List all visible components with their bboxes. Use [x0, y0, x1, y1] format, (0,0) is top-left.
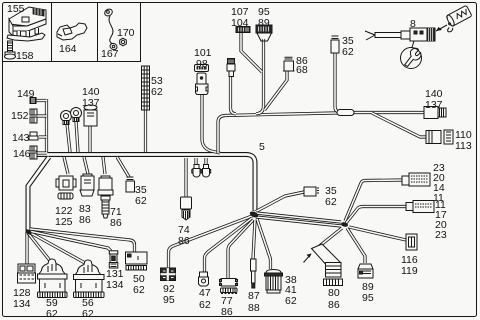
connector 47/62: [199, 272, 209, 286]
svg-text:5: 5: [259, 141, 265, 153]
wire to 35/62 left: [117, 157, 129, 177]
wire to 77/86: [228, 220, 253, 278]
svg-text:143: 143: [12, 132, 30, 144]
wire to 71/86: [103, 157, 105, 174]
svg-text:104: 104: [231, 17, 249, 29]
wire to 83/86: [84, 157, 88, 174]
connector 86/68: [283, 57, 295, 71]
wire 86/68: [265, 71, 288, 110]
svg-text:86: 86: [178, 235, 190, 247]
wire 149 stub: [34, 99, 47, 102]
wire ring terminal 2: [76, 121, 78, 152]
connector 128/134: [18, 264, 36, 283]
wire bulb 1: [194, 158, 197, 165]
wire left column: [45, 99, 48, 153]
wire ring terminal 1: [67, 124, 70, 152]
wire 143 stub: [39, 135, 47, 138]
connector 146 pair: [30, 146, 37, 159]
svg-text:62: 62: [82, 308, 94, 320]
connector 83/86: [80, 174, 94, 196]
wire trunk1 main harness: [37, 155, 255, 212]
connector 77/86: [220, 279, 238, 294]
wire connector 104: [231, 76, 237, 114]
svg-text:86: 86: [110, 217, 122, 229]
svg-text:62: 62: [342, 46, 354, 58]
connector 101/98: [195, 65, 209, 95]
item 8 plug body: [401, 28, 435, 41]
connector 87/88: [251, 259, 257, 288]
wire 35/62 top: [335, 53, 341, 112]
component 74/86: [181, 197, 192, 220]
wire 101/98 sensor: [202, 91, 220, 153]
wire to 38/41/62: [257, 219, 271, 269]
wire 146 stub: [36, 151, 47, 154]
item 8 cable: [375, 33, 401, 38]
connector 95/89: [256, 25, 272, 41]
wire trunk2 to 140/137: [356, 111, 425, 114]
wire right junction to 11/17/20/23: [346, 207, 406, 224]
svg-text:62: 62: [135, 195, 147, 207]
ring terminal 2: [71, 108, 82, 122]
wrench circle: [401, 41, 422, 69]
wire left junction to 56/62: [29, 232, 85, 263]
item 8 fork end: [365, 31, 401, 40]
svg-text:95: 95: [163, 294, 175, 306]
svg-text:88: 88: [248, 302, 260, 314]
wire junction to right junction a: [256, 213, 341, 222]
svg-text:62: 62: [285, 295, 297, 307]
wire junction to 35/62 mid: [255, 192, 304, 212]
connector 89/95: [358, 264, 373, 278]
connector 110/113: [426, 130, 453, 144]
cable 167/170 with rings: [103, 8, 126, 51]
svg-text:98: 98: [196, 58, 208, 70]
wire bundle trunk to left junction: [28, 157, 49, 231]
glow plug 71/86: [101, 196, 110, 218]
wire to 110/113: [372, 113, 427, 137]
wire to 122/125: [64, 157, 68, 174]
connector 104: [227, 59, 235, 77]
svg-text:149: 149: [17, 88, 35, 100]
svg-text:23: 23: [435, 229, 447, 241]
wire to 87/88: [253, 220, 255, 259]
svg-text:62: 62: [133, 284, 145, 296]
connector 152 pair: [30, 109, 37, 123]
svg-text:158: 158: [16, 50, 34, 62]
svg-text:62: 62: [151, 86, 163, 98]
ring terminal 1: [61, 111, 72, 125]
ribbon cable 80: [304, 244, 343, 286]
junction knot left: [24, 228, 32, 236]
wire right junction to ribbon: [317, 228, 342, 248]
svg-text:155: 155: [7, 3, 25, 15]
connector 107/104: [236, 27, 250, 33]
wire left junction to 131/134: [29, 231, 111, 251]
wire 95/89 bundle: [256, 39, 264, 114]
wire 152 stub: [36, 114, 47, 117]
wire left junction to 59/62: [28, 233, 51, 262]
svg-text:80: 80: [328, 287, 340, 299]
connector 140/137 right: [424, 107, 446, 119]
connector 35/62 mid right: [304, 187, 319, 196]
svg-text:87: 87: [248, 290, 260, 302]
wire trunk2 riser: [218, 113, 356, 154]
relay 140/137 small: [84, 105, 97, 126]
wire left junction to 128/134: [25, 232, 28, 264]
wire to 47/62: [205, 218, 253, 272]
lighter element: [441, 5, 474, 32]
connector 116/119: [406, 234, 417, 250]
connector 149: [30, 98, 36, 104]
connector 143: [29, 132, 38, 140]
svg-text:89: 89: [258, 17, 270, 29]
svg-text:134: 134: [106, 279, 124, 291]
svg-text:86: 86: [328, 299, 340, 311]
connector 50/62: [126, 252, 148, 270]
bracket 164: [57, 23, 87, 40]
wire left junction to 50/62: [30, 229, 135, 252]
junction knot right: [340, 221, 348, 227]
arrow lighter to plug: [436, 25, 447, 31]
svg-text:134: 134: [13, 298, 31, 310]
connector 38/41/62: [265, 270, 283, 294]
bulb holder 2: [201, 165, 210, 178]
wire 53/62 sleeve: [144, 110, 147, 152]
svg-text:146: 146: [13, 148, 31, 160]
wire right junction to 116/119: [349, 227, 406, 240]
sleeve 53/62: [142, 66, 150, 110]
svg-text:170: 170: [117, 27, 135, 39]
svg-text:8: 8: [410, 18, 416, 30]
svg-text:119: 119: [401, 265, 418, 277]
wire 107/104: [241, 33, 262, 72]
wire right junction to 89/95: [347, 228, 365, 263]
connector 92/95: [161, 268, 176, 281]
wire relay 140/137: [88, 126, 91, 152]
connector 23/20/14/11: [402, 173, 430, 186]
connector 35/62 top: [331, 36, 339, 53]
relay 155: [7, 7, 46, 41]
svg-text:62: 62: [325, 196, 337, 208]
svg-text:47: 47: [199, 287, 211, 299]
connector 122/125: [56, 176, 76, 199]
svg-text:125: 125: [55, 216, 73, 228]
svg-text:152: 152: [11, 110, 29, 122]
svg-text:95: 95: [362, 292, 374, 304]
wire right junction to 23/20/14/11: [345, 180, 403, 221]
svg-text:167: 167: [101, 48, 119, 60]
svg-text:137: 137: [425, 99, 443, 111]
wire to 74/86: [184, 158, 187, 198]
connector 56/62: [74, 260, 105, 298]
svg-text:68: 68: [296, 64, 308, 76]
connector 35/62 left: [126, 177, 135, 192]
svg-text:164: 164: [59, 43, 77, 55]
bulb holder 1: [192, 165, 201, 178]
bolt 158: [5, 41, 16, 59]
svg-text:62: 62: [199, 299, 211, 311]
inset panel dividers: [3, 3, 141, 62]
wire to 92/95: [169, 216, 253, 268]
wire junction to right junction b: [256, 217, 341, 226]
wire bulb 2: [204, 158, 207, 165]
connector 131/134: [109, 251, 118, 268]
svg-text:86: 86: [79, 214, 91, 226]
connector 59/62: [38, 259, 68, 298]
connector 11/17/20/23: [406, 201, 434, 213]
svg-text:62: 62: [46, 308, 58, 320]
connector above 71/86: [98, 176, 113, 195]
svg-text:137: 137: [82, 97, 100, 109]
svg-text:86: 86: [221, 306, 233, 318]
trunk2 sleeve wrap: [337, 110, 354, 116]
svg-text:113: 113: [455, 140, 472, 152]
junction knot center: [249, 210, 259, 219]
